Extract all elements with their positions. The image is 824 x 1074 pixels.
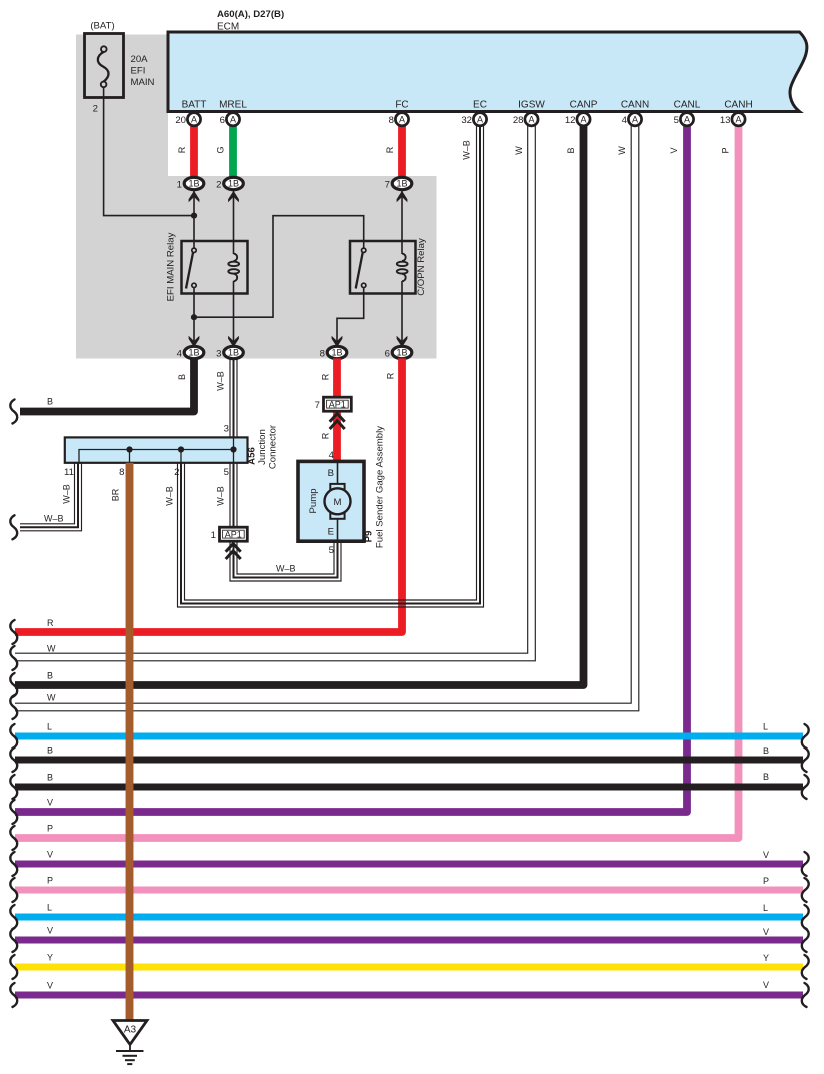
svg-text:3: 3	[224, 424, 229, 435]
svg-text:MAIN: MAIN	[131, 77, 155, 88]
ground A3 triangle	[113, 1021, 147, 1045]
wire FC 1B to C/OPN relay coil	[401, 189, 403, 254]
wire C/OPN coil bottom to 6 1B	[401, 281, 403, 347]
svg-text:BATT: BATT	[182, 100, 207, 111]
node A56 pin 5	[230, 446, 236, 452]
svg-text:A: A	[191, 114, 197, 124]
svg-text:1B: 1B	[396, 348, 407, 358]
svg-text:MREL: MREL	[219, 100, 247, 111]
pin numbers ECM	[175, 115, 730, 126]
wire EFI switch out to C/OPN switch in	[194, 216, 364, 318]
svg-text:CANH: CANH	[724, 100, 752, 111]
svg-text:1B: 1B	[188, 348, 199, 358]
svg-text:A: A	[477, 114, 483, 124]
svg-text:Junction: Junction	[257, 429, 268, 465]
wire W-B from A56 pin 5 down to 1 AP1	[230, 463, 237, 527]
connector 7 AP1	[315, 397, 352, 411]
svg-text:(BAT): (BAT)	[90, 21, 114, 32]
svg-text:B: B	[763, 772, 769, 782]
svg-text:C/OPN Relay: C/OPN Relay	[416, 238, 427, 296]
svg-text:AP1: AP1	[329, 400, 346, 410]
svg-text:Fuel Sender Gage Assembly: Fuel Sender Gage Assembly	[375, 426, 386, 548]
wire G MREL ECM to 1B	[229, 126, 237, 179]
svg-text:P: P	[47, 876, 53, 886]
svg-text:A: A	[580, 114, 586, 124]
svg-text:1B: 1B	[188, 179, 199, 189]
svg-text:B: B	[763, 746, 769, 756]
svg-text:IGSW: IGSW	[518, 100, 545, 111]
chevron up at 2 1B	[228, 191, 239, 203]
chevrons up below 1 AP1	[226, 544, 241, 559]
wire V CANL: down then left to edge	[15, 126, 687, 813]
chevron down at 8 1B	[332, 336, 343, 348]
svg-text:V: V	[47, 850, 53, 860]
junction node fuse/BATT	[191, 213, 197, 219]
wire W-B EC: down, left, up to A56 pin2	[178, 126, 484, 608]
svg-text:A56: A56	[247, 447, 258, 465]
svg-text:A: A	[684, 114, 690, 124]
ECM box	[168, 32, 807, 112]
wire R FC ECM to 1B	[398, 126, 406, 179]
wire MREL 1B to EFI relay coil	[233, 189, 235, 254]
connector oval 7 1B	[385, 177, 412, 190]
svg-text:W: W	[617, 146, 627, 155]
svg-text:8: 8	[119, 467, 124, 478]
svg-text:W–B: W–B	[276, 564, 296, 574]
svg-text:W: W	[47, 693, 56, 703]
svg-text:CANL: CANL	[674, 100, 701, 111]
wire B CANP: down then left to edge	[15, 126, 584, 686]
wire EFI coil bottom to 3 1B	[233, 281, 235, 347]
wire L full width	[15, 733, 803, 740]
wire W-B from 1 AP1 to pump pin 5	[230, 541, 341, 581]
fuel pump assembly box	[298, 461, 364, 541]
wire C/OPN switch bottom to 8 1B	[337, 288, 364, 347]
svg-text:7: 7	[385, 179, 390, 190]
svg-text:CANN: CANN	[621, 100, 649, 111]
wire BATT 1B to EFI relay switch	[193, 189, 195, 248]
chevron up at 7 1B	[397, 191, 408, 203]
svg-text:3: 3	[216, 348, 221, 359]
wire V full width 3	[15, 992, 803, 999]
wire Y full width	[15, 964, 803, 971]
svg-text:V: V	[763, 850, 769, 860]
svg-text:W–B: W–B	[216, 486, 226, 506]
svg-text:A: A	[230, 114, 236, 124]
svg-text:G: G	[216, 146, 226, 153]
relay C/OPN box	[350, 241, 416, 294]
svg-text:A60(A), D27(B): A60(A), D27(B)	[217, 9, 284, 20]
connector oval 4 1B	[177, 346, 204, 359]
svg-text:7: 7	[315, 400, 320, 411]
svg-text:CANP: CANP	[570, 100, 598, 111]
wire V full width	[15, 861, 803, 868]
svg-text:P: P	[721, 147, 731, 153]
svg-text:V: V	[47, 926, 53, 936]
svg-text:A: A	[399, 114, 405, 124]
svg-text:EFI MAIN Relay: EFI MAIN Relay	[166, 232, 177, 301]
svg-text:R: R	[321, 432, 331, 439]
connector oval 1 1B	[177, 177, 204, 190]
connector 1 AP1	[211, 527, 248, 541]
wire BR brown from A56 pin 8 to ground	[126, 463, 134, 1021]
svg-text:P9: P9	[364, 531, 375, 543]
svg-text:M: M	[334, 497, 342, 508]
chevron down at 6 1B	[397, 336, 408, 348]
relay C/OPN switch	[356, 248, 366, 288]
pump internal wire bottom	[337, 519, 339, 545]
svg-text:V: V	[669, 147, 679, 153]
motor brush bottom	[330, 513, 344, 519]
svg-text:A3: A3	[124, 1025, 137, 1036]
svg-text:B: B	[47, 397, 53, 407]
relay EFI MAIN box	[182, 241, 248, 294]
svg-text:5: 5	[224, 467, 229, 478]
svg-text:11: 11	[64, 467, 74, 478]
svg-text:1: 1	[177, 179, 182, 190]
svg-text:R: R	[177, 146, 187, 153]
svg-text:4: 4	[329, 450, 335, 461]
svg-text:EC: EC	[473, 100, 487, 111]
svg-text:A: A	[632, 114, 638, 124]
node A56 pin 2	[178, 446, 184, 452]
svg-text:8: 8	[389, 115, 394, 126]
svg-text:2: 2	[174, 467, 179, 478]
svg-text:ECM: ECM	[217, 22, 239, 33]
svg-text:B: B	[47, 746, 53, 756]
wire B full width 1	[15, 757, 803, 764]
svg-text:L: L	[47, 903, 52, 913]
left edge squiggles	[10, 400, 17, 1008]
svg-text:R: R	[385, 146, 395, 153]
wire P CANH: down then left to edge	[15, 126, 739, 839]
svg-text:2: 2	[93, 104, 98, 115]
svg-text:1B: 1B	[228, 179, 239, 189]
motor brush top	[330, 484, 344, 490]
wire V full width 2	[15, 937, 803, 944]
svg-text:6: 6	[220, 115, 225, 126]
junction node EFI switch out	[191, 314, 197, 320]
node A56 pin 8	[126, 446, 132, 452]
svg-text:12: 12	[565, 115, 576, 126]
wire EFI switch bottom to 4 1B	[193, 288, 195, 347]
svg-text:20A: 20A	[131, 54, 149, 65]
pump internal wire top	[337, 463, 339, 484]
svg-text:W–B: W–B	[62, 484, 72, 504]
right bundle labels	[763, 722, 769, 991]
svg-text:V: V	[763, 980, 769, 990]
connector oval 8 1B	[320, 346, 347, 359]
svg-text:A: A	[735, 114, 741, 124]
svg-text:W–B: W–B	[216, 371, 226, 391]
svg-text:W–B: W–B	[44, 514, 64, 524]
chevron up at 1 1B	[189, 191, 200, 203]
relay EFI MAIN coil	[228, 254, 239, 282]
svg-text:FC: FC	[395, 100, 408, 111]
svg-text:R: R	[321, 373, 331, 380]
svg-text:5: 5	[674, 115, 679, 126]
wire fuse to BATT line	[104, 87, 194, 216]
svg-text:V: V	[47, 798, 53, 808]
ground stem and bars	[116, 1045, 144, 1065]
svg-text:1B: 1B	[396, 179, 407, 189]
svg-text:R: R	[386, 372, 396, 379]
svg-text:W: W	[47, 644, 56, 654]
wire B from 4 1B: down then left to edge	[20, 358, 194, 411]
pin circles A on ECM	[187, 113, 745, 126]
wire P full width	[15, 887, 803, 894]
wire R from 6 1B: down then left to edge	[15, 358, 402, 632]
svg-text:B: B	[47, 773, 53, 783]
wire R BATT ECM to 1B	[190, 126, 198, 179]
svg-text:1: 1	[211, 530, 216, 541]
wire L full width 2	[15, 914, 803, 921]
junction connector A56 box	[65, 437, 248, 462]
motor M circle	[325, 488, 351, 514]
svg-text:W–B: W–B	[165, 486, 175, 506]
svg-text:L: L	[47, 722, 52, 732]
svg-text:13: 13	[720, 115, 731, 126]
svg-text:W–B: W–B	[462, 140, 472, 160]
svg-text:Y: Y	[763, 953, 769, 963]
connector oval 3 1B	[216, 346, 243, 359]
wire W-B from A56 pin 11: down then left to edge	[20, 463, 82, 531]
left bundle labels	[47, 618, 56, 991]
relay block gray background	[76, 35, 437, 359]
svg-text:Y: Y	[47, 953, 53, 963]
relay EFI MAIN switch	[186, 248, 196, 288]
svg-text:28: 28	[513, 115, 524, 126]
chevrons up below 7 AP1	[330, 414, 345, 429]
svg-text:2: 2	[216, 179, 221, 190]
svg-text:W: W	[514, 146, 524, 155]
wire W CANN: down then left to edge	[15, 126, 639, 711]
svg-text:EFI: EFI	[131, 66, 146, 77]
svg-text:BR: BR	[111, 488, 121, 501]
svg-text:L: L	[763, 722, 768, 732]
svg-text:P: P	[763, 876, 769, 886]
right edge squiggles	[802, 724, 809, 1007]
svg-text:B: B	[566, 147, 576, 153]
svg-text:B: B	[177, 374, 187, 380]
connector oval 6 1B	[385, 346, 412, 359]
svg-text:P: P	[47, 824, 53, 834]
svg-text:V: V	[47, 981, 53, 991]
connector oval 2 1B	[216, 177, 243, 190]
svg-text:B: B	[328, 468, 334, 479]
svg-text:E: E	[328, 527, 334, 538]
wire B full width 2	[15, 784, 803, 791]
svg-text:Connector: Connector	[268, 424, 279, 469]
fuse 20A EFI MAIN box	[85, 34, 124, 98]
wire R from 8 1B to AP1 to pump	[333, 358, 341, 397]
relay C/OPN coil	[397, 254, 408, 282]
svg-text:1B: 1B	[228, 348, 239, 358]
svg-text:4: 4	[177, 348, 183, 359]
svg-text:AP1: AP1	[225, 530, 242, 540]
svg-text:Pump: Pump	[308, 488, 319, 513]
svg-text:1B: 1B	[331, 348, 342, 358]
svg-text:4: 4	[622, 115, 628, 126]
white strip under ECM	[168, 112, 437, 177]
svg-text:32: 32	[461, 115, 472, 126]
svg-text:A: A	[528, 114, 534, 124]
A56 internal bus	[79, 450, 234, 463]
svg-text:V: V	[763, 927, 769, 937]
chevron down at 4 1B	[189, 336, 200, 348]
svg-text:6: 6	[385, 348, 390, 359]
svg-text:R: R	[47, 618, 54, 628]
wire W IGSW: down then left to edge	[15, 126, 535, 661]
svg-text:8: 8	[320, 348, 325, 359]
chevron down at 3 1B	[228, 336, 239, 348]
wire W-B from 3 1B down to A56 pin 3	[230, 358, 237, 437]
svg-text:20: 20	[175, 115, 186, 126]
svg-text:L: L	[763, 903, 768, 913]
svg-text:5: 5	[329, 545, 334, 556]
svg-text:B: B	[47, 671, 53, 681]
